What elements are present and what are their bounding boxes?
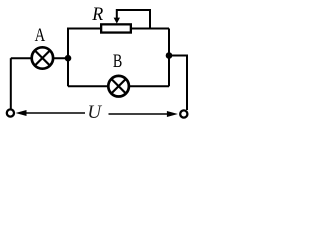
svg-text:A: A <box>35 25 46 46</box>
svg-text:R: R <box>91 4 103 25</box>
wire left branch vertical <box>67 29 69 87</box>
node left junction <box>65 55 72 62</box>
terminal right <box>180 110 187 117</box>
lamp B <box>108 76 129 97</box>
label A <box>35 25 46 46</box>
svg-text:B: B <box>113 51 122 72</box>
lamp A <box>32 47 53 68</box>
label R <box>91 4 103 25</box>
terminal left <box>7 109 14 116</box>
wire bottom branch <box>68 85 169 87</box>
wire left vertical <box>10 58 12 109</box>
wire lamp A horizontal <box>11 57 68 59</box>
label B <box>113 51 122 72</box>
label U <box>87 102 102 123</box>
wire top branch left <box>67 28 101 30</box>
wire top branch right <box>131 28 169 30</box>
arrow U left <box>16 110 86 116</box>
resistor R <box>101 24 131 32</box>
wiper arrow of rheostat <box>114 10 150 29</box>
svg-text:U: U <box>87 102 102 123</box>
wire right tap <box>169 56 187 111</box>
arrow U right <box>109 111 178 117</box>
node right junction <box>166 52 173 59</box>
wire right branch vertical <box>168 29 170 87</box>
